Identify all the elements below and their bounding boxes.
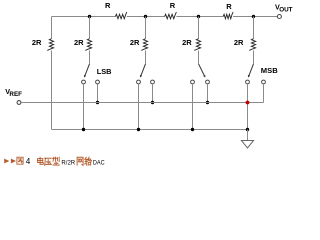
wire top rail segment 2 — [127, 16, 165, 18]
node right contact 2 on VREF rail — [151, 101, 154, 104]
wire top rail segment 4 to VOUT — [233, 16, 277, 18]
svg-text:2R: 2R — [182, 38, 192, 47]
caption glyph tu (图) — [17, 157, 23, 164]
caption glyph ya (压) — [45, 158, 52, 165]
svg-text:2R: 2R — [130, 38, 140, 47]
resistor R2 — [165, 1, 177, 19]
resistor R1 — [105, 1, 127, 19]
node N2 top rail junction — [88, 15, 91, 18]
node N3 top rail junction — [144, 15, 147, 18]
svg-text:2R: 2R — [32, 38, 42, 47]
caption glyph luo (络) — [85, 157, 92, 165]
svg-text:R: R — [226, 2, 232, 11]
resistor 2R4 — [182, 38, 200, 50]
switch S2 — [137, 64, 155, 84]
wire 2R1 bottom lead to ground rail — [51, 51, 53, 130]
wire switch 4 left contact to ground rail — [247, 84, 249, 130]
wire 2R2 bottom lead — [89, 51, 91, 64]
node N5 top rail junction — [252, 15, 255, 18]
wire 2R3 bottom lead — [145, 51, 147, 64]
resistor 2R5 — [234, 38, 256, 50]
node right contact 3 on VREF rail — [206, 101, 209, 104]
wire 2R3 top lead — [145, 17, 147, 39]
wire switch 3 right contact to VREF rail — [207, 84, 209, 103]
caption figure 4 marker arrows — [4, 159, 9, 164]
node left contact 4 on ground rail — [246, 128, 249, 131]
wire switch 3 left contact to ground rail — [192, 84, 194, 130]
wire 2R4 bottom lead — [198, 51, 200, 64]
svg-text:2R: 2R — [74, 38, 84, 47]
resistor 2R3 — [130, 38, 148, 50]
svg-text:2R: 2R — [234, 38, 244, 47]
wire VREF rail — [21, 102, 264, 104]
wire switch 2 right contact to VREF rail — [152, 84, 154, 103]
resistor 2R1 (terminator) — [32, 38, 54, 50]
wire 2R5 bottom lead — [253, 51, 255, 64]
node left contact 1 on ground rail — [82, 128, 85, 131]
wire ground rail — [52, 129, 248, 131]
switch S1 (LSB) — [82, 64, 100, 84]
svg-text:REF: REF — [9, 91, 22, 98]
svg-text:R: R — [105, 1, 111, 10]
wire 2R1 top lead — [51, 17, 53, 39]
wire switch 1 left contact to ground rail — [83, 84, 85, 130]
svg-text:DAC: DAC — [93, 159, 105, 166]
wire 2R5 top lead — [253, 17, 255, 39]
caption glyph xing (型) — [53, 157, 60, 165]
node right contact 1 on VREF rail — [96, 101, 99, 104]
svg-text:R/2R: R/2R — [61, 159, 75, 166]
node red junction MSB left / VREF rail — [246, 101, 250, 105]
resistor 2R2 — [74, 38, 92, 50]
svg-text:MSB: MSB — [261, 66, 278, 75]
node N4 top rail junction — [197, 15, 200, 18]
wire 2R4 top lead — [198, 17, 200, 39]
svg-text:OUT: OUT — [279, 7, 292, 14]
node left contact 3 on ground rail — [191, 128, 194, 131]
resistor R3 — [223, 2, 233, 19]
terminal VOUT — [275, 2, 293, 18]
svg-text:LSB: LSB — [97, 67, 112, 76]
svg-text:R: R — [170, 1, 176, 10]
terminal VREF — [5, 87, 22, 105]
wire ground lead — [247, 130, 249, 141]
node left contact 2 on ground rail — [137, 128, 140, 131]
wire 2R2 top lead — [89, 17, 91, 39]
switch S4 (MSB) — [246, 64, 266, 84]
wire switch 2 left contact to ground rail — [138, 84, 140, 130]
wire switch 1 right contact to VREF rail — [97, 84, 99, 103]
svg-text:4: 4 — [26, 157, 31, 166]
switch S3 — [191, 64, 210, 84]
caption glyph dian (电) — [38, 157, 44, 164]
wire top rail segment 1 — [52, 16, 116, 18]
wire switch 4 right contact riser (VREF rail end) — [263, 84, 265, 103]
wire top rail segment 3 — [176, 16, 223, 18]
caption glyph wang (网) — [77, 157, 83, 165]
ground — [241, 141, 253, 149]
